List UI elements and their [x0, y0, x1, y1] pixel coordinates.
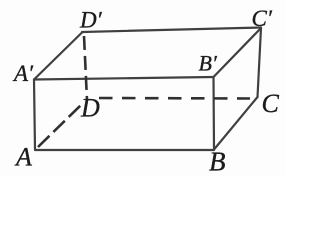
svg-text:C: C: [262, 89, 280, 118]
wire edge C-C' (right back vertical): [258, 28, 262, 97]
wire edge A-A' (left front vertical): [34, 80, 35, 150]
wire hidden edge A-D (dashed diagonal): [38, 104, 82, 147]
wire edge A'-D' (top left depth): [34, 33, 82, 80]
svg-text:B: B: [209, 147, 226, 177]
wire hidden edge D'-D (dashed vertical): [84, 36, 87, 100]
svg-text:C′: C′: [252, 6, 273, 31]
wire edge B'-C' (top right depth): [214, 28, 262, 77]
wire hidden edge D-C (dashed horizontal): [99, 97, 250, 100]
cuboid figure ABCD-A'B'C'D': [0, 0, 285, 176]
svg-text:B′: B′: [199, 51, 218, 76]
svg-text:D: D: [80, 94, 100, 123]
wire edge A'-B' (top front): [34, 77, 214, 80]
wire edge B-C (bottom right depth): [214, 97, 258, 150]
wire edge A-B (bottom front): [35, 149, 214, 151]
wire edge B-B' (right front vertical): [212, 77, 215, 150]
svg-text:A: A: [14, 143, 32, 172]
wire edge D'-C' (top back): [82, 28, 261, 33]
svg-text:A′: A′: [12, 61, 34, 86]
svg-text:D′: D′: [79, 8, 103, 33]
